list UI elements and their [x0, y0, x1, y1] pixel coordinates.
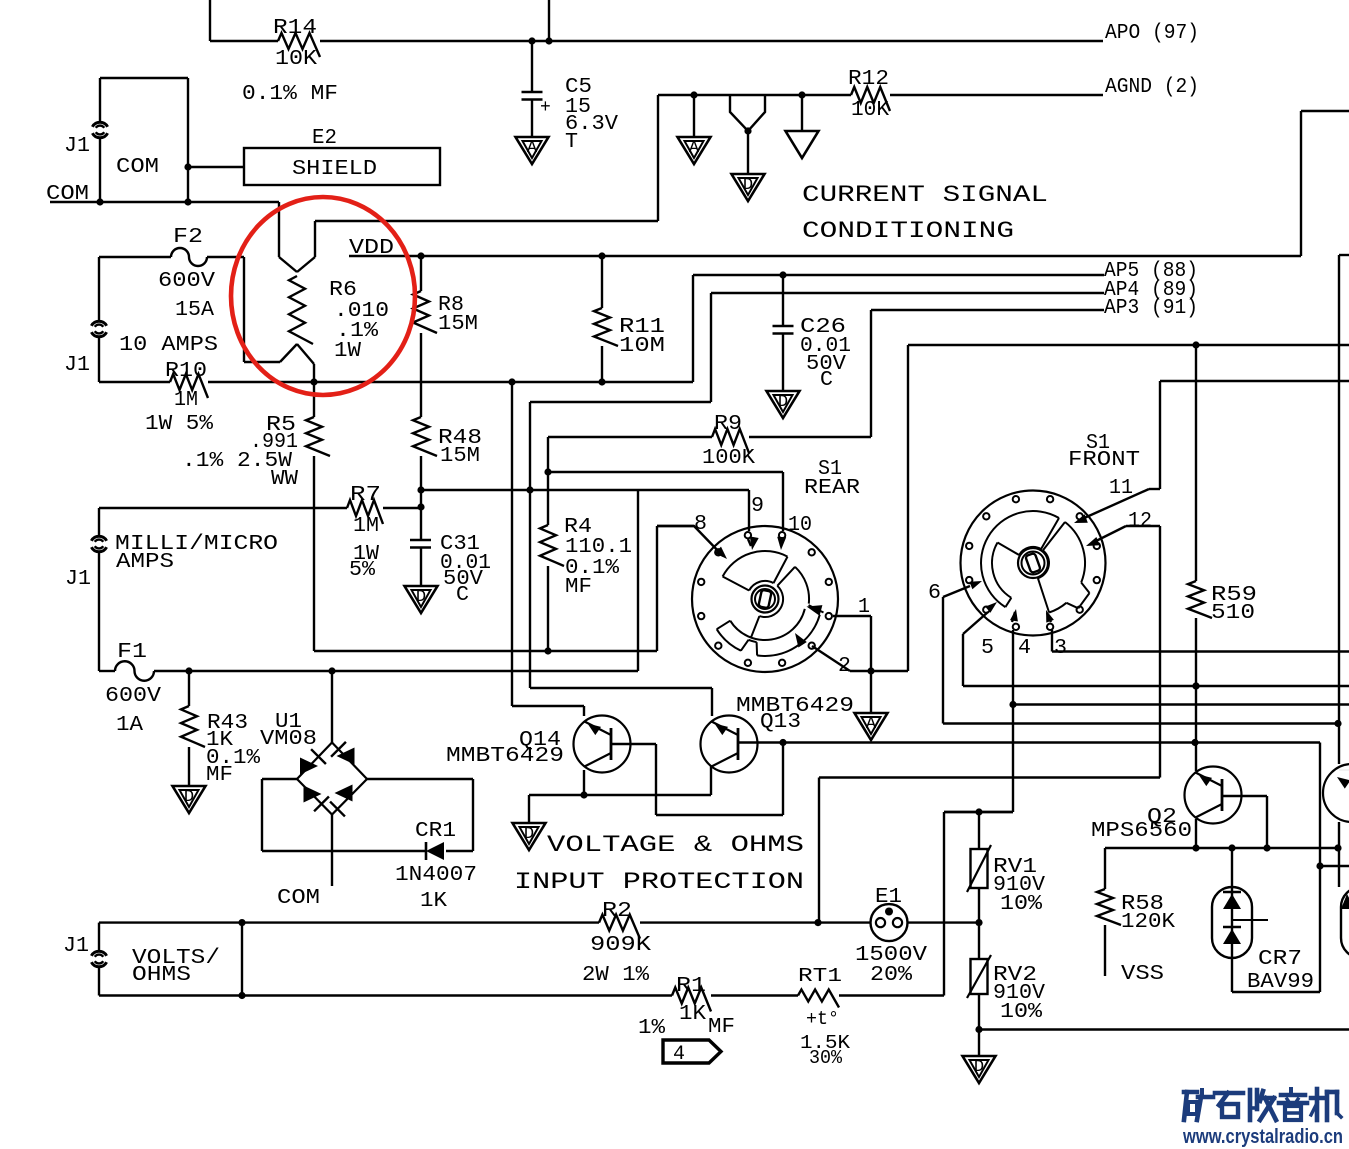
wire [1232, 743, 1349, 993]
svg-text:110.1: 110.1 [565, 536, 632, 559]
ground D [513, 823, 546, 850]
svg-text:REAR: REAR [804, 477, 860, 500]
ground [786, 131, 819, 158]
wire [819, 778, 1160, 923]
svg-text:MMBT6429: MMBT6429 [446, 745, 564, 768]
diode CR1 [395, 820, 477, 913]
wire [658, 94, 851, 96]
annotation red circle [231, 197, 415, 395]
label COM [116, 156, 159, 179]
label title2 [514, 832, 804, 895]
svg-text:120K: 120K [1121, 911, 1175, 934]
resistor R6 [279, 202, 389, 364]
svg-text:R2: R2 [602, 900, 632, 923]
wire [1192, 819, 1199, 852]
svg-text:COM: COM [116, 156, 159, 179]
wire [315, 95, 658, 221]
svg-text:+: + [540, 98, 551, 118]
svg-text:A: A [689, 139, 700, 158]
node AGND [1105, 76, 1199, 99]
svg-text:A: A [866, 715, 877, 734]
svg-text:1W 5%: 1W 5% [145, 413, 213, 436]
label pin12 [1128, 510, 1152, 533]
svg-text:600V: 600V [158, 270, 215, 293]
wire AP3 [871, 310, 1104, 437]
switch S1 REAR rotor left [723, 551, 788, 591]
resistor R7 [347, 484, 383, 582]
node APO [1105, 22, 1199, 45]
svg-text:CR1: CR1 [415, 820, 456, 843]
wire pin4 [944, 609, 1349, 816]
transistor right-edge [1323, 764, 1349, 822]
ground D [173, 786, 206, 813]
svg-text:R6: R6 [329, 279, 357, 302]
wire VDD [349, 111, 1349, 256]
svg-text:10 AMPS: 10 AMPS [119, 334, 218, 357]
wire [99, 994, 672, 996]
bridge diode 2 [331, 742, 354, 765]
transistor Q2 [1091, 767, 1242, 844]
svg-text:+t°: +t° [806, 1008, 839, 1030]
svg-text:RT1: RT1 [798, 965, 842, 987]
label pin5 [981, 637, 994, 660]
wire [99, 378, 693, 385]
svg-text:15A: 15A [175, 299, 214, 322]
resistor R59 [1188, 345, 1257, 771]
wire [529, 766, 711, 823]
svg-text:5%: 5% [349, 559, 375, 582]
svg-text:0.1% MF: 0.1% MF [242, 83, 338, 106]
ground A [678, 137, 711, 164]
spark gap E1 [855, 886, 927, 987]
wire [798, 91, 805, 131]
node AP3 [1104, 297, 1198, 320]
wire [99, 490, 638, 671]
watermark logo [1184, 1089, 1341, 1120]
ground A [516, 137, 549, 164]
svg-text:4: 4 [673, 1043, 685, 1066]
wire [100, 78, 188, 202]
resistor R43 [181, 667, 260, 787]
svg-text:www.crystalradio.cn: www.crystalradio.cn [1182, 1126, 1343, 1148]
switch S1 REAR [692, 458, 860, 672]
svg-text:J1: J1 [65, 568, 91, 591]
wire [98, 257, 100, 382]
svg-text:WW: WW [271, 468, 298, 491]
svg-text:MF: MF [565, 576, 592, 599]
ground D [405, 586, 438, 613]
svg-text:1: 1 [858, 596, 870, 619]
wire [508, 378, 584, 716]
svg-text:CR7: CR7 [1258, 948, 1302, 971]
svg-text:10M: 10M [619, 335, 665, 358]
terminal E2 SHIELD [244, 127, 440, 185]
svg-text:R10: R10 [165, 360, 207, 383]
bridge diode 3 [304, 786, 329, 812]
node COM [277, 887, 320, 910]
wire pin3 [1046, 610, 1349, 652]
svg-text:AP3 (91): AP3 (91) [1104, 297, 1198, 320]
bridge diode 4 [330, 785, 352, 817]
node COM [46, 183, 89, 206]
svg-text:INPUT PROTECTION: INPUT PROTECTION [514, 869, 804, 895]
wire AP4 [530, 293, 1104, 688]
wire [908, 919, 983, 926]
label pin11 [1109, 477, 1133, 500]
wire pin2 [812, 345, 908, 671]
wire [417, 456, 424, 540]
wire [98, 923, 100, 996]
svg-text:1M: 1M [353, 515, 379, 538]
svg-text:11: 11 [1109, 477, 1133, 500]
wire pin6 [943, 581, 1342, 727]
svg-text:10: 10 [788, 514, 812, 537]
svg-text:D: D [974, 1058, 984, 1077]
wire [890, 94, 1103, 96]
svg-text:1M: 1M [174, 389, 198, 412]
wire pin1 [833, 616, 875, 713]
svg-text:10%: 10% [1000, 1001, 1042, 1024]
resistor R58 [1097, 848, 1175, 986]
svg-text:E2: E2 [312, 127, 337, 150]
label pin3 [1054, 637, 1067, 660]
label pin9 [751, 495, 764, 518]
svg-text:MPS6560: MPS6560 [1091, 820, 1192, 843]
connector J1 10AMPS [64, 321, 218, 377]
svg-text:8: 8 [694, 513, 707, 536]
svg-text:VSS: VSS [1121, 963, 1164, 986]
svg-text:D: D [778, 393, 788, 412]
svg-text:D: D [524, 825, 534, 844]
watermark url [1182, 1126, 1343, 1148]
wire pin11 [1074, 381, 1349, 523]
node AP4 [1104, 279, 1198, 302]
svg-text:AGND (2): AGND (2) [1105, 76, 1199, 99]
svg-text:E1: E1 [875, 886, 902, 909]
svg-text:J1: J1 [63, 935, 89, 958]
wire [99, 256, 244, 258]
svg-text:T: T [565, 131, 578, 154]
svg-text:C: C [820, 369, 833, 392]
svg-text:F2: F2 [173, 226, 203, 249]
svg-text:20%: 20% [870, 964, 912, 987]
label pin4 [1018, 637, 1031, 660]
wire [640, 919, 871, 926]
svg-text:1N4007: 1N4007 [395, 864, 477, 887]
svg-text:MF: MF [708, 1016, 735, 1039]
transistor Q14 [446, 716, 631, 773]
svg-text:A: A [527, 139, 538, 158]
switch S1 REAR rotor arrows [795, 605, 822, 647]
fuse F1 [105, 641, 161, 737]
wire [209, 0, 211, 41]
resistor R8 [413, 252, 478, 336]
bridge U1 [260, 711, 317, 751]
diode CR7 [1212, 848, 1314, 994]
wire [1222, 796, 1271, 852]
wire [331, 815, 333, 887]
svg-text:J1: J1 [64, 354, 90, 377]
svg-text:R14: R14 [273, 17, 317, 40]
svg-text:1W: 1W [334, 340, 361, 363]
svg-text:6: 6 [928, 582, 941, 605]
svg-text:R9: R9 [714, 413, 742, 436]
resistor R48 [413, 417, 482, 468]
wire [328, 667, 335, 742]
wire [611, 739, 787, 815]
wire [262, 779, 473, 851]
svg-text:D: D [743, 176, 753, 195]
label title [802, 182, 1048, 244]
varistor RV1 [967, 812, 1045, 923]
ground D [963, 1056, 996, 1083]
svg-text:9: 9 [751, 495, 764, 518]
svg-text:100K: 100K [702, 447, 755, 470]
capacitor C5 [522, 41, 619, 154]
node VDD [349, 237, 394, 260]
svg-text:10K: 10K [275, 48, 317, 71]
label pin1 [858, 596, 870, 619]
wire pin10 [548, 472, 786, 550]
wire pin12 [1086, 526, 1160, 778]
svg-text:10%: 10% [1000, 893, 1042, 916]
resistor R10 [145, 360, 213, 436]
svg-text:VOLTAGE & OHMS: VOLTAGE & OHMS [547, 832, 804, 858]
wire [98, 508, 100, 671]
svg-text:2: 2 [838, 655, 851, 678]
svg-text:1A: 1A [116, 714, 143, 737]
wire [1105, 844, 1342, 851]
wire [730, 95, 765, 174]
ground D [732, 174, 765, 201]
svg-text:SHIELD: SHIELD [292, 158, 377, 181]
bridge diamond [297, 743, 367, 815]
svg-text:CURRENT SIGNAL: CURRENT SIGNAL [802, 182, 1048, 208]
connector J1 V [63, 935, 220, 987]
svg-text:5: 5 [981, 637, 994, 660]
resistor R5 [182, 364, 330, 651]
capacitor C31 [410, 533, 491, 607]
wire [50, 198, 279, 205]
svg-text:C: C [456, 584, 469, 607]
svg-text:J1: J1 [64, 135, 90, 158]
node junction [690, 91, 697, 98]
svg-text:Q13: Q13 [760, 711, 801, 734]
wire [99, 919, 599, 999]
wire AP5 [693, 274, 1104, 276]
svg-text:15M: 15M [440, 445, 480, 468]
svg-text:3: 3 [1054, 637, 1067, 660]
svg-text:10K: 10K [851, 99, 889, 122]
svg-text:4: 4 [1018, 637, 1031, 660]
node junction [528, 37, 552, 44]
wire [548, 0, 550, 41]
svg-text:600V: 600V [105, 685, 161, 708]
switch S1 REAR rotor right [717, 567, 824, 656]
diode capsule right-edge [1341, 887, 1349, 958]
svg-text:R1: R1 [676, 975, 706, 998]
resistor RT1 [798, 965, 851, 1069]
svg-text:FRONT: FRONT [1068, 449, 1140, 472]
svg-text:R7: R7 [350, 484, 381, 507]
connector J1 mA [65, 533, 278, 591]
resistor R4 [540, 468, 632, 654]
svg-text:AMPS: AMPS [116, 551, 174, 574]
svg-text:1K: 1K [420, 890, 447, 913]
resistor R11 [594, 252, 665, 385]
wire AP5 riser [692, 275, 694, 382]
svg-text:VM08: VM08 [260, 728, 317, 751]
svg-text:R12: R12 [848, 68, 889, 91]
ground D [767, 391, 800, 418]
resistor R9 [702, 413, 755, 470]
wire [738, 739, 1320, 746]
wire [184, 163, 244, 170]
svg-text:CONDITIONING: CONDITIONING [802, 218, 1014, 244]
wire [711, 994, 798, 996]
ground A [855, 713, 888, 740]
bridge diode 1 [300, 749, 326, 774]
wire pin5 [963, 602, 1349, 690]
switch S1 FRONT rotor right [1038, 522, 1090, 613]
transistor Q13 [701, 695, 855, 773]
svg-text:APO (97): APO (97) [1105, 22, 1199, 45]
resistor R14 [273, 17, 320, 71]
wire pin9 [748, 490, 759, 550]
capacitor C26 [773, 271, 852, 392]
svg-text:2W 1%: 2W 1% [582, 964, 649, 987]
wire [420, 333, 422, 417]
wire [210, 40, 1103, 42]
wire [548, 437, 871, 472]
wire [262, 850, 473, 852]
label pin6 [928, 582, 941, 605]
wire pin8 [657, 526, 727, 559]
connector J1 COM [64, 122, 108, 158]
wire [314, 526, 694, 651]
label pin2 [838, 655, 851, 678]
label R14 tolerance [242, 83, 338, 106]
wire [99, 507, 421, 509]
svg-text:F1: F1 [117, 641, 147, 664]
svg-text:15M: 15M [438, 313, 478, 336]
node AP5 [1104, 260, 1198, 283]
label pin8 [694, 513, 707, 536]
svg-text:1%: 1% [638, 1017, 665, 1040]
wire [244, 257, 280, 362]
switch S1 FRONT rotor left [981, 511, 1059, 607]
resistor R2 [582, 900, 651, 987]
svg-text:D: D [416, 588, 426, 607]
flag 4 [663, 1040, 721, 1066]
svg-text:BAV99: BAV99 [1247, 971, 1314, 994]
wire [975, 1026, 1349, 1056]
wire [1339, 255, 1349, 887]
svg-text:1K: 1K [679, 1003, 706, 1026]
wire [420, 486, 749, 493]
svg-text:D: D [184, 788, 194, 807]
svg-text:30%: 30% [809, 1047, 843, 1069]
resistor R12 [848, 68, 890, 122]
wire [908, 341, 1349, 348]
svg-text:510: 510 [1211, 602, 1255, 625]
switch S1 FRONT [961, 432, 1141, 636]
varistor RV2 [967, 923, 1045, 1030]
svg-text:MF: MF [206, 764, 233, 787]
svg-text:COM: COM [277, 887, 320, 910]
label pin10 [788, 514, 812, 537]
svg-text:909K: 909K [590, 934, 651, 957]
wire [693, 95, 695, 137]
svg-text:OHMS: OHMS [132, 964, 191, 987]
resistor R1 [638, 975, 735, 1040]
wire [530, 688, 712, 716]
svg-text:12: 12 [1128, 510, 1152, 533]
wire [839, 812, 1013, 996]
fuse F2 [158, 226, 215, 322]
